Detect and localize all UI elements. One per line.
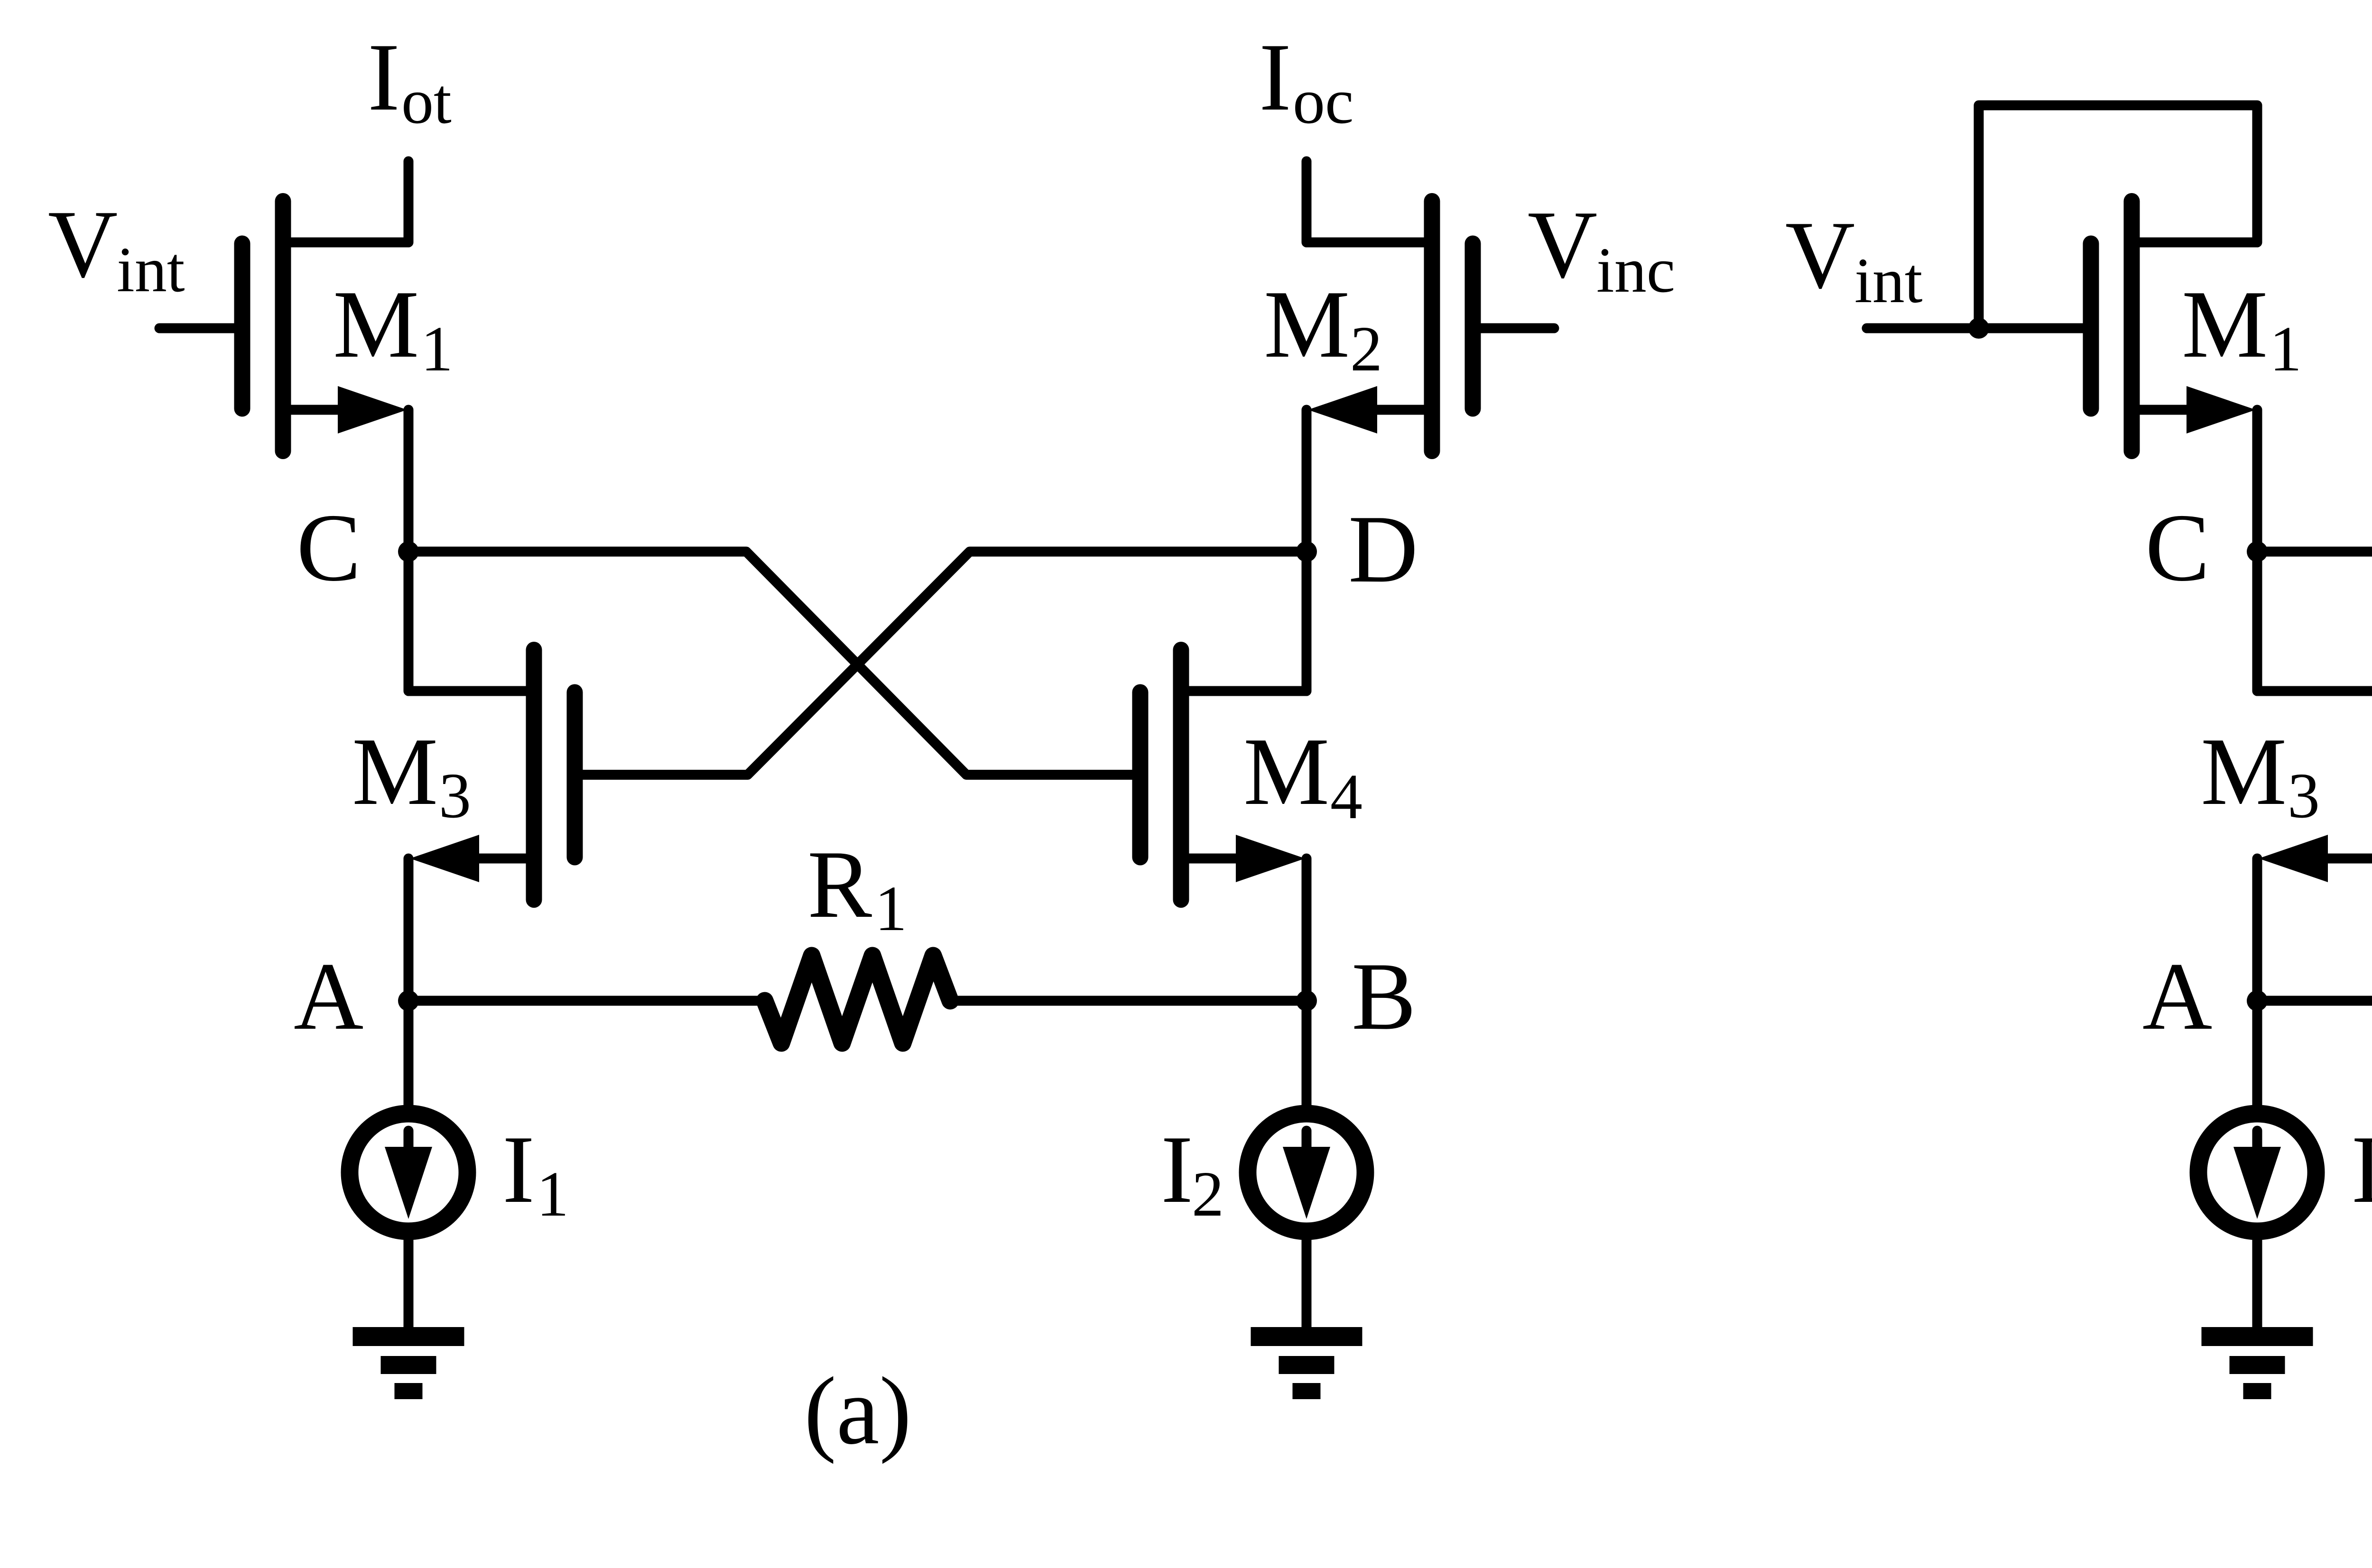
wire M1 source to node C (b) xyxy=(2252,410,2262,552)
wire cross-couple node D to M3 gate (a) xyxy=(575,552,1307,775)
junction dot node B (a) xyxy=(1296,990,1317,1011)
svg-text:A: A xyxy=(294,943,363,1050)
wire node C to M3 drain (a) xyxy=(408,552,534,691)
transistor M3 (b) xyxy=(2258,650,2372,900)
wire node A to R1 (a) xyxy=(408,996,765,1006)
wire node D to M4 drain (a) xyxy=(1181,552,1307,691)
label I_ot (a) xyxy=(368,24,452,137)
svg-text:int: int xyxy=(117,234,185,305)
wire I1 to ground (b) xyxy=(2252,1237,2262,1328)
svg-text:inc: inc xyxy=(1596,235,1675,306)
current source I1 (b) xyxy=(2198,1114,2316,1231)
label M3 (b) xyxy=(2201,718,2320,831)
wire node A to R1 (b) xyxy=(2257,996,2372,1006)
wire M3 source to node A (a) xyxy=(404,858,414,1001)
svg-text:I: I xyxy=(368,24,400,131)
transistor M1 (a) xyxy=(242,201,408,451)
junction dot node A (b) xyxy=(2247,990,2268,1011)
svg-text:M: M xyxy=(1243,718,1329,825)
svg-text:I: I xyxy=(502,1116,535,1223)
svg-text:2: 2 xyxy=(1192,1159,1224,1230)
svg-text:B: B xyxy=(1352,943,1416,1050)
caption (a) xyxy=(804,1357,911,1465)
resistor R1 (a) xyxy=(765,956,950,1043)
svg-text:I: I xyxy=(1161,1116,1193,1223)
svg-text:V: V xyxy=(1785,202,1855,309)
svg-text:1: 1 xyxy=(421,314,453,385)
svg-text:int: int xyxy=(1854,245,1923,316)
wire I2 to ground (a) xyxy=(1302,1237,1312,1328)
label I1 (a) xyxy=(502,1116,569,1230)
label node C (a) xyxy=(296,494,361,601)
svg-text:3: 3 xyxy=(439,760,471,831)
wire V_int gate lead (a) xyxy=(159,323,242,333)
label I2 (a) xyxy=(1161,1116,1224,1230)
wire M2 source to node D (a) xyxy=(1302,410,1312,552)
svg-text:1: 1 xyxy=(875,873,907,944)
svg-text:A: A xyxy=(2142,943,2212,1050)
svg-text:R: R xyxy=(807,831,872,938)
wire cross-couple node C to M4 gate (a) xyxy=(408,552,1140,775)
wire I_oc drain stub (a) xyxy=(1302,161,1312,242)
svg-text:I: I xyxy=(1259,24,1291,131)
junction dot node D (a) xyxy=(1296,541,1317,562)
label R1 (a) xyxy=(807,831,907,944)
transistor M3 (a) xyxy=(409,650,575,900)
ground symbol right (a) xyxy=(1251,1337,1362,1391)
label node D (a) xyxy=(1348,496,1418,603)
junction dot node C (b) xyxy=(2247,541,2268,562)
wire M3 source to node A (b) xyxy=(2252,858,2262,1001)
wire V_inc gate lead (a) xyxy=(1473,323,1555,333)
svg-text:2: 2 xyxy=(1350,314,1382,385)
label node C (b) xyxy=(2145,494,2210,601)
svg-text:3: 3 xyxy=(2288,760,2320,831)
svg-text:V: V xyxy=(48,191,118,298)
wire node B to I2 (a) xyxy=(1302,1001,1312,1108)
label V_inc (a) xyxy=(1528,191,1675,306)
svg-text:oc: oc xyxy=(1293,66,1353,137)
svg-text:C: C xyxy=(2145,494,2210,601)
label M1 (b) xyxy=(2182,271,2302,385)
svg-text:M: M xyxy=(333,271,419,378)
transistor M1 (b) xyxy=(2091,201,2257,451)
label node A (b) xyxy=(2142,943,2212,1050)
wire V_int gate lead (b) xyxy=(1867,323,2091,333)
label M2 (a) xyxy=(1264,271,1382,385)
label M1 (a) xyxy=(333,271,453,385)
wire node A to I1 (a) xyxy=(404,1001,414,1108)
wire M1 diode loop gate-to-drain (b) xyxy=(1979,105,2257,328)
svg-text:I: I xyxy=(2351,1116,2372,1223)
junction dot node C (a) xyxy=(398,541,419,562)
ground symbol left (b) xyxy=(2202,1337,2313,1391)
svg-text:M: M xyxy=(2182,271,2268,378)
svg-text:1: 1 xyxy=(537,1159,569,1230)
current source I2 (a) xyxy=(1248,1114,1365,1231)
wire node C to M3 drain (b) xyxy=(2257,552,2372,691)
svg-text:V: V xyxy=(1528,191,1597,298)
svg-text:C: C xyxy=(296,494,361,601)
label V_int (a) xyxy=(48,191,185,305)
svg-text:M: M xyxy=(1264,271,1350,378)
wire R1 to node B (a) xyxy=(951,996,1306,1006)
label V_int (b) xyxy=(1785,202,1923,316)
label M3 (a) xyxy=(352,718,471,831)
label I_oc (a) xyxy=(1259,24,1353,137)
wire M1 source to node C (a) xyxy=(404,410,414,552)
svg-text:4: 4 xyxy=(1330,761,1362,832)
svg-text:M: M xyxy=(2201,718,2287,825)
wire I1 to ground (a) xyxy=(404,1237,414,1328)
svg-text:(a): (a) xyxy=(804,1357,911,1465)
transistor M4 (a) xyxy=(1140,650,1306,900)
current source I1 (a) xyxy=(350,1114,467,1231)
wire node A to I1 (b) xyxy=(2252,1001,2262,1108)
wire cross-couple node C to M4 gate (b) xyxy=(2257,552,2372,775)
svg-text:M: M xyxy=(352,718,438,825)
wire M4 source to node B (a) xyxy=(1302,858,1312,1001)
label M4 (a) xyxy=(1243,718,1362,832)
label I1 (b) xyxy=(2351,1116,2372,1230)
transistor M2 (a) xyxy=(1307,201,1473,451)
junction dot on V_int gate wire (b) xyxy=(1968,318,1989,339)
wire I_ot drain stub (a) xyxy=(404,161,414,242)
svg-text:D: D xyxy=(1348,496,1418,603)
label node B (a) xyxy=(1352,943,1416,1050)
svg-text:1: 1 xyxy=(2270,314,2302,385)
label node A (a) xyxy=(294,943,363,1050)
junction dot node A (a) xyxy=(398,990,419,1011)
svg-text:ot: ot xyxy=(401,66,452,137)
ground symbol left (a) xyxy=(353,1337,464,1391)
